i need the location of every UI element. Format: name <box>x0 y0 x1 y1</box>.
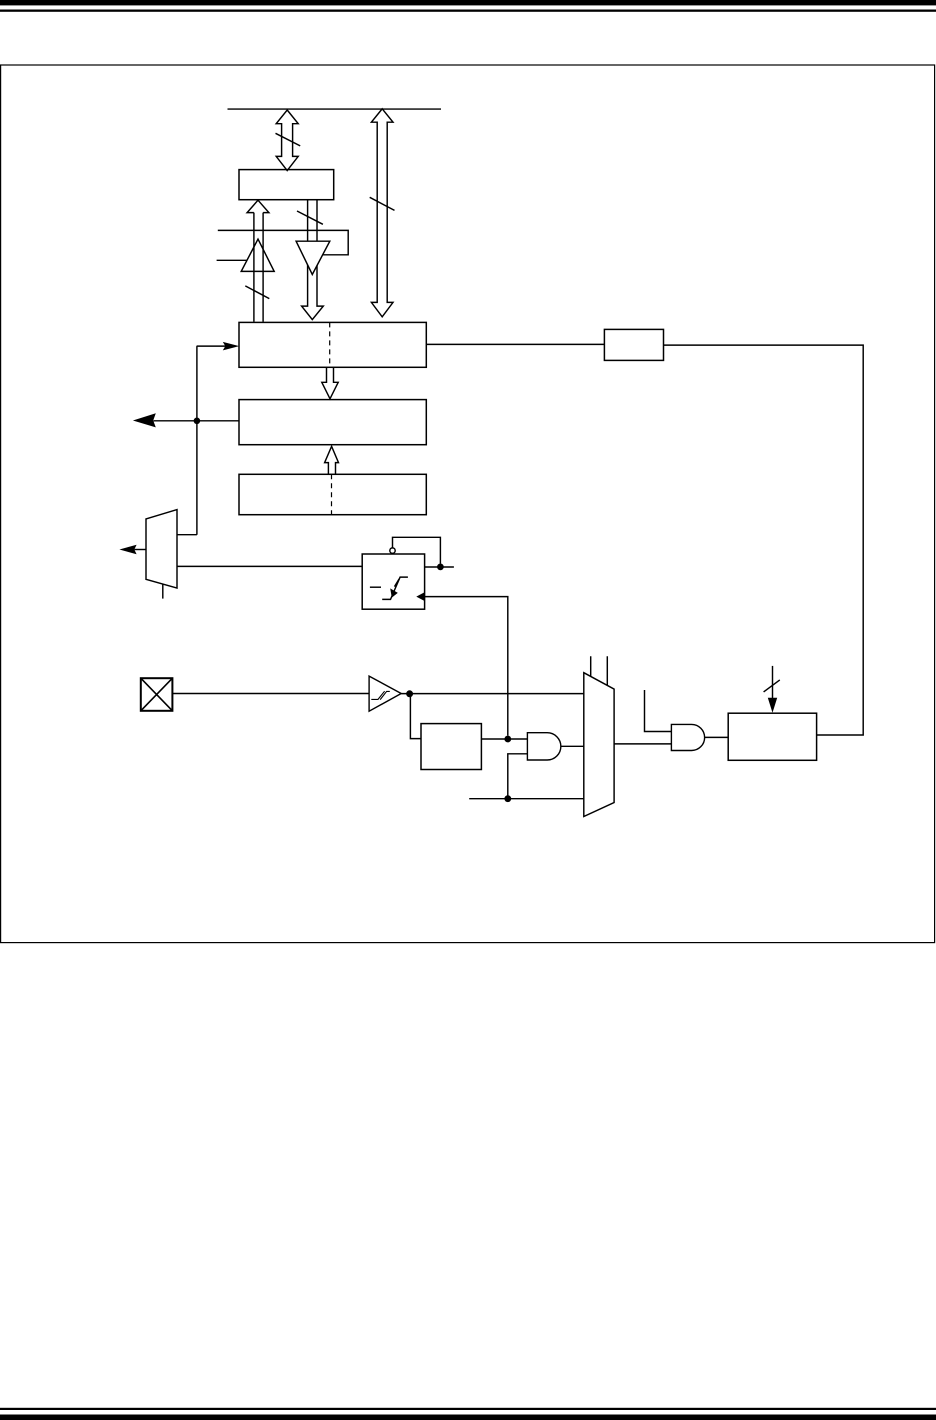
read path arrow <box>245 200 269 322</box>
write path arrow <box>297 200 323 320</box>
node B <box>437 564 444 571</box>
mux M2 select stubs <box>591 656 608 685</box>
buffer register U1 <box>239 170 334 200</box>
wire register to sync block <box>426 343 604 345</box>
wire prescaler output <box>481 738 527 740</box>
schmitt trigger U7 <box>369 676 401 711</box>
wire mux output <box>614 743 671 745</box>
clock input arrow into register <box>197 342 240 351</box>
header bar <box>0 0 936 5</box>
latch register U5 <box>239 474 426 514</box>
wire G2 output <box>705 736 729 738</box>
wire clock option line <box>469 798 584 800</box>
wire feedback from prescaler <box>664 345 864 735</box>
synchronize block U6 <box>362 554 424 609</box>
bidirectional data arrow <box>276 110 301 171</box>
wire clock net <box>177 346 197 535</box>
wire sleep stub <box>425 566 454 568</box>
transfer arrow up <box>325 446 339 474</box>
node D <box>504 736 511 743</box>
prescaler U8 <box>421 724 481 770</box>
wire to prescaler <box>410 694 421 739</box>
mux M1 select stub <box>162 584 164 598</box>
holding register U4 <box>239 400 426 445</box>
node C <box>406 690 413 697</box>
output prescaler U9 <box>728 713 816 760</box>
wire G1 lower input <box>508 754 528 799</box>
clock source mux M2 <box>584 673 614 817</box>
output mux M1 <box>146 510 177 588</box>
write buffer B2 <box>296 241 330 274</box>
prescale select arrow <box>764 666 780 713</box>
register divider <box>329 322 331 367</box>
wire pin to schmitt <box>172 693 369 695</box>
timer register pair U2 <box>239 322 426 367</box>
mux output arrow <box>119 545 146 555</box>
tall bidirectional bus arrow <box>370 109 395 317</box>
pin P1 <box>141 678 173 711</box>
overflow output arrow <box>133 413 239 427</box>
wire G1 output <box>561 745 584 747</box>
node E <box>504 795 511 802</box>
schmitt glyph <box>371 691 390 699</box>
wire data bus <box>228 108 442 110</box>
wire sync clock input <box>416 592 508 736</box>
and gate G2 <box>671 724 704 750</box>
and gate G1 <box>527 733 560 760</box>
junction node A <box>194 418 201 425</box>
transfer arrow down <box>322 367 338 399</box>
wire sync path <box>177 565 362 567</box>
sync delay block U3 <box>604 329 663 360</box>
inverted enable bubble <box>390 548 395 553</box>
wire async path <box>401 693 584 695</box>
wire read strobe <box>217 259 247 261</box>
sync glyph <box>370 577 408 599</box>
latch divider <box>331 474 333 514</box>
wire G2 enable stub <box>645 690 672 732</box>
wire enable loop <box>393 537 441 563</box>
read buffer B1 <box>241 239 274 271</box>
wire write strobe <box>218 230 348 254</box>
